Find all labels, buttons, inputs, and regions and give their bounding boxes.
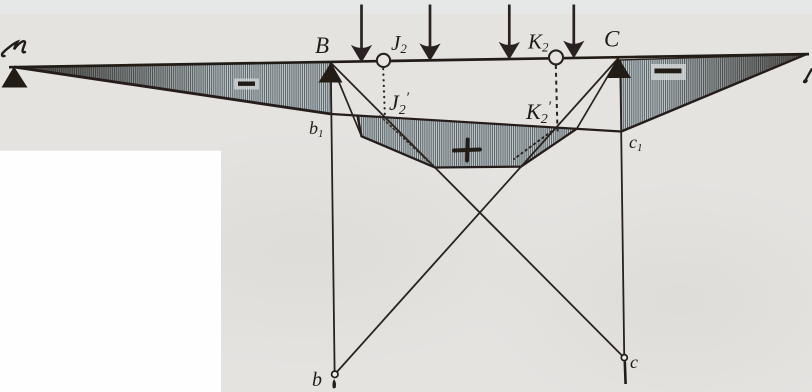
svg-text:c: c [630,352,638,372]
svg-text:B: B [315,33,329,58]
svg-text:b: b [312,369,322,391]
svg-text:C: C [604,27,620,52]
svg-text:K2′: K2′ [525,99,552,127]
